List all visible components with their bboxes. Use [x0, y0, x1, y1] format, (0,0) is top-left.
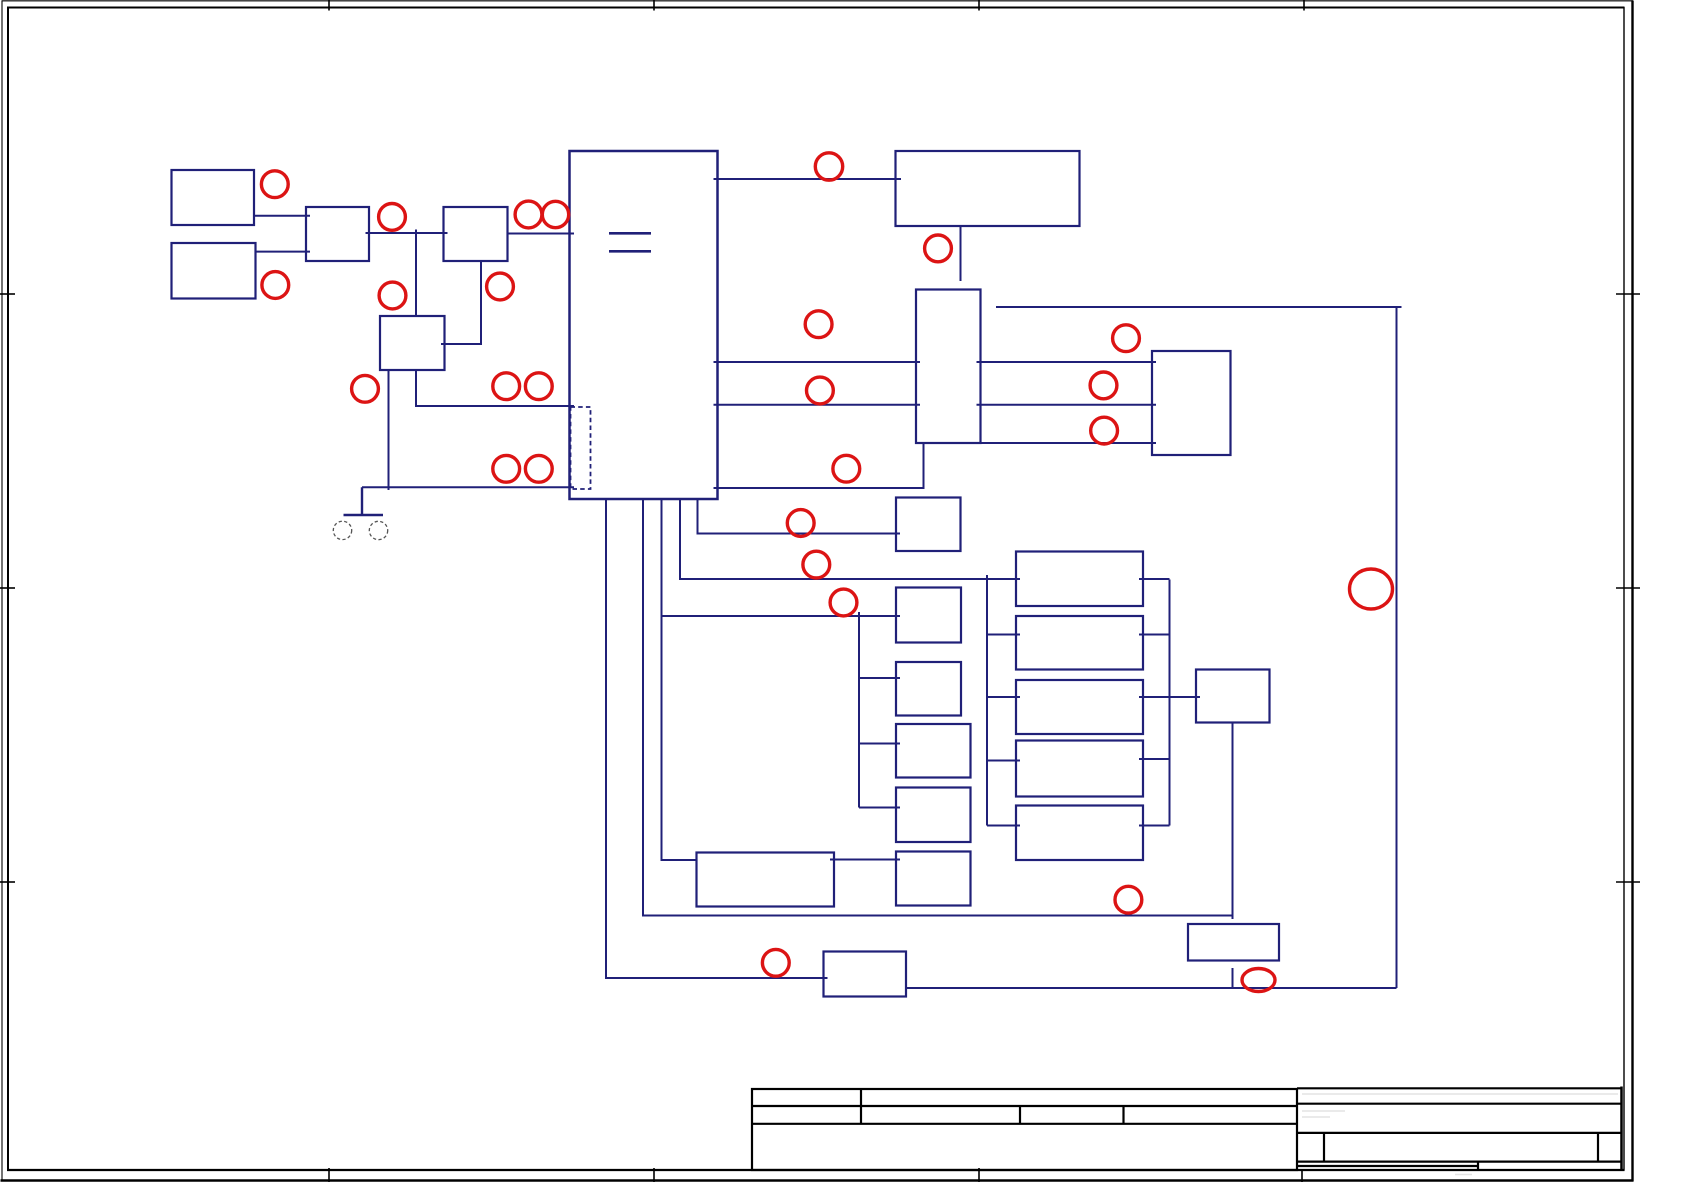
block E [380, 316, 445, 370]
ground [344, 487, 384, 515]
wire U1 pin 5 down [698, 499, 901, 534]
wire U1 pin 2 down long bottom [643, 499, 1233, 916]
wire tall to medium upper [977, 361, 1157, 363]
wire B to C [256, 251, 311, 253]
block C [306, 207, 369, 261]
wire column vertical [858, 612, 860, 808]
wire stub R5 right [1139, 825, 1170, 827]
marker circle 5 [542, 201, 568, 227]
wire E bottom-left down [388, 370, 390, 490]
marker circle 11 [493, 455, 520, 482]
marker circle 26 [1350, 569, 1393, 609]
wire stub square 3 [859, 743, 900, 745]
small block center [896, 498, 961, 552]
wide block [697, 853, 835, 907]
wire bus to square 1 [662, 615, 901, 617]
wire wide block to square 5 [830, 859, 900, 861]
wire ground net to U1 [362, 486, 574, 488]
faint placeholder text lines in title block [1302, 1094, 1618, 1175]
marker circle 23 [1091, 417, 1118, 444]
wire U1 to tall block upper [714, 361, 921, 363]
top-right block [896, 151, 1080, 226]
row block R2 [1016, 616, 1143, 670]
marker circle 6 [379, 282, 406, 309]
ground pad circle right [369, 521, 387, 539]
wire long right loop [996, 307, 1402, 988]
wire top-right block down [960, 226, 962, 282]
wire bottom block 1 to right vertical [906, 987, 1397, 989]
marker circle 13 [815, 153, 842, 180]
wire U1 pin 3 down [662, 499, 697, 860]
wire tall bottom to medium [981, 442, 1157, 444]
square 3 [896, 724, 971, 778]
equals mark inside U1 [609, 233, 651, 251]
wire tall to medium lower [977, 404, 1157, 406]
main block U1 [570, 151, 718, 499]
wire row column left vertical [986, 575, 988, 826]
marker circle 1 [261, 171, 288, 198]
row block R1 [1016, 552, 1143, 607]
square 5 [896, 852, 971, 906]
marker circle 4 [515, 201, 542, 228]
marker circle 18 [787, 510, 814, 537]
marker circle 8 [352, 375, 379, 402]
wire bottom block 2 down [1232, 968, 1234, 988]
wire stub R5 left [987, 825, 1020, 827]
wire U1 to top-right block [714, 178, 902, 180]
medium block right [1152, 351, 1231, 455]
marker circle 12 [525, 455, 552, 482]
marker circle 9 [493, 373, 520, 400]
marker circle 24 [1115, 886, 1142, 913]
marker circle 19 [803, 551, 830, 578]
square 4 [896, 788, 971, 843]
marker circle 3 [379, 204, 406, 231]
marker circle 7 [487, 273, 514, 300]
title block [752, 1087, 1623, 1171]
wire stub R3 left [987, 696, 1020, 698]
wire U1 to tall block lower [714, 404, 921, 406]
row block R4 [1016, 741, 1143, 797]
bottom block 1 [824, 952, 907, 997]
marker circle 21 [1113, 325, 1140, 352]
wire stub R4 right [1139, 758, 1170, 760]
marker circle 14 [925, 235, 952, 262]
wire stub R1 right [1139, 578, 1170, 580]
block A [172, 170, 255, 225]
square 1 [896, 588, 961, 643]
wire tall bottom-left to U1 [714, 443, 924, 488]
bottom block 2 [1188, 924, 1279, 961]
row block R3 [1016, 680, 1143, 734]
marker circle 25 [762, 949, 789, 976]
marker circle 20 [830, 589, 857, 616]
square 2 [896, 662, 961, 716]
block D [444, 207, 508, 261]
wire A to C [254, 215, 310, 217]
marker circle 16 [807, 377, 834, 404]
marker circle 10 [525, 373, 552, 400]
dashed connector region on U1 left edge [571, 407, 591, 489]
marker circle 2 [262, 272, 289, 299]
wire C to D [366, 232, 448, 234]
marker circle 15 [805, 311, 832, 338]
wire D to U1 [508, 233, 575, 235]
wire U1 pin 4 down [680, 499, 1020, 579]
wire E bottom to U1 [416, 370, 574, 406]
wire right block down [1232, 723, 1234, 920]
wire stub R4 left [987, 760, 1020, 762]
wire junction to E top [415, 230, 417, 317]
wire stub R3 right to right block [1139, 696, 1200, 698]
wire row column right vertical [1169, 580, 1171, 826]
marker circle 17 [833, 455, 860, 482]
wire D bottom to E right [441, 261, 481, 344]
wire stub R2 left [987, 634, 1020, 636]
row block R5 [1016, 806, 1143, 861]
wire stub square 4 [859, 807, 900, 809]
marker circle 22 [1090, 372, 1117, 399]
wire U1 pin 1 down [606, 499, 828, 978]
right block [1196, 670, 1270, 723]
wire stub square 2 [859, 677, 900, 679]
wire stub R2 right [1139, 634, 1170, 636]
block B [172, 243, 256, 299]
marker ellipse 27 [1242, 969, 1275, 992]
ground pad circle left [333, 521, 351, 539]
tall block [916, 290, 981, 444]
